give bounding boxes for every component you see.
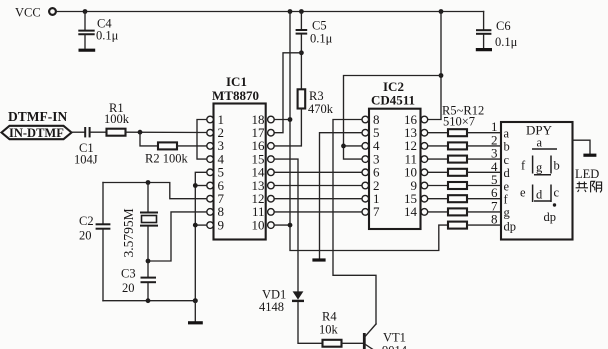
- svg-text:VCC: VCC: [15, 6, 41, 20]
- svg-text:14: 14: [404, 204, 418, 219]
- resistor network R5~R12 510x7 label: [442, 104, 484, 129]
- resistor R4 10k: [319, 310, 342, 347]
- display DPY body: [501, 122, 573, 240]
- wire pin6 stub: [195, 185, 206, 187]
- svg-text:9014: 9014: [382, 344, 408, 349]
- svg-text:dp: dp: [504, 220, 517, 234]
- svg-text:e: e: [520, 186, 526, 200]
- crystal X1 3.5795M: [121, 183, 158, 262]
- node OSC1/crystal-top junction: [146, 180, 151, 185]
- wire VDD to IC2 pins 4,3: [344, 76, 442, 160]
- wire pin4 stub: [344, 145, 362, 147]
- wire Q4 pin14 to IC2 pin6: [275, 171, 362, 173]
- wire VDD rail down to dp resistor: [290, 12, 448, 251]
- resistor R11 (segment g): [428, 208, 501, 215]
- wire VCC top rail: [56, 11, 483, 13]
- IC1 right pin numbers: [252, 112, 266, 233]
- wire Q1 pin11 to IC2 pin7: [275, 211, 362, 213]
- wire R2 to IC1 pin3: [177, 145, 206, 147]
- wire IC1 pin10 stub: [275, 224, 291, 226]
- resistor R12 (segment dp): [448, 222, 501, 229]
- svg-text:C3: C3: [121, 267, 136, 281]
- svg-text:7: 7: [373, 204, 380, 219]
- resistor R6 (segment b): [428, 142, 501, 149]
- node pin6 junction: [193, 183, 198, 188]
- wire IC2 pin8 VSS to VT1 collector: [333, 120, 376, 325]
- IC1 left pin numbers: [218, 112, 225, 233]
- svg-text:104J: 104J: [74, 153, 98, 167]
- resistor R8 (segment d): [428, 169, 501, 176]
- svg-text:0.1μ: 0.1μ: [96, 29, 119, 43]
- svg-text:LED: LED: [575, 167, 599, 181]
- ground bar under C4: [79, 49, 96, 52]
- svg-text:MT8870: MT8870: [212, 88, 259, 103]
- svg-text:R4: R4: [322, 310, 337, 324]
- ground bar under C6: [476, 48, 492, 51]
- wire Q2 pin12 to IC2 pin1: [275, 198, 362, 200]
- svg-text:a: a: [504, 127, 510, 141]
- svg-text:DTMF-IN: DTMF-IN: [8, 109, 67, 124]
- svg-text:4148: 4148: [259, 300, 284, 314]
- wire numbers 1-8 segment labels: [491, 119, 498, 226]
- svg-text:g: g: [536, 161, 543, 175]
- ground bar LE: [312, 258, 325, 261]
- IC1 right pin circles 18-10: [268, 116, 275, 228]
- wire R3 to IC1 pin16: [275, 109, 302, 146]
- svg-text:510×7: 510×7: [443, 115, 475, 129]
- svg-text:9: 9: [218, 217, 225, 232]
- node C3 bottom junction: [146, 298, 151, 303]
- IC2 left pin circles: [362, 116, 369, 215]
- svg-text:R3: R3: [309, 89, 324, 103]
- wire OSC1 node to IC1 pin7: [103, 183, 206, 199]
- label LED common-cathode: [575, 167, 602, 192]
- svg-text:3.5795M: 3.5795M: [121, 208, 136, 257]
- IC2 left pin numbers: [373, 112, 380, 219]
- node pin4 junction: [341, 144, 346, 149]
- wire Q3 pin13 to IC2 pin2: [275, 185, 362, 187]
- wire junction down to R2: [140, 132, 158, 146]
- wire bottom ground rail: [103, 300, 195, 302]
- wire IC1 pin8 to crystal bottom: [148, 212, 206, 261]
- resistor R2 100k: [145, 142, 188, 165]
- svg-text:R2 100k: R2 100k: [145, 152, 188, 166]
- svg-text:IC1: IC1: [226, 74, 247, 89]
- DPY seven-segment glyph: [520, 136, 560, 225]
- svg-text:8: 8: [491, 212, 498, 227]
- node rail junction dots: [83, 9, 444, 14]
- svg-text:dp: dp: [544, 210, 557, 224]
- wire IC1 pins5,6,9 ground bus: [195, 172, 206, 300]
- svg-text:g: g: [504, 206, 511, 220]
- svg-text:470k: 470k: [308, 102, 334, 116]
- wire VDD branch to IC2 pin16: [428, 12, 441, 120]
- svg-text:c: c: [554, 186, 560, 200]
- svg-text:0.1μ: 0.1μ: [310, 32, 333, 46]
- capacitor C6 0.1u: [476, 12, 518, 50]
- wire R1 to IC1 pin2: [126, 131, 207, 133]
- svg-text:20: 20: [79, 229, 92, 243]
- node VDD branch junction: [439, 73, 444, 78]
- node C5/R3/StGT junction: [299, 50, 304, 55]
- resistor R10 (segment f): [428, 195, 501, 202]
- op-amp U/IC1 MT8870 body: [212, 74, 266, 240]
- node DTMF-IN input flag: [2, 109, 72, 140]
- ground symbol bottom-left: [188, 301, 203, 323]
- svg-text:C6: C6: [496, 19, 511, 33]
- DPY pin labels a-g,dp: [504, 127, 517, 234]
- wire DPY common to LED bar: [573, 140, 591, 153]
- wire R4 to VT1 base: [342, 342, 364, 344]
- IC2 right pin numbers: [404, 112, 418, 219]
- svg-text:d: d: [504, 166, 511, 180]
- svg-text:10: 10: [252, 217, 265, 232]
- resistor R1 100k: [104, 101, 130, 136]
- svg-text:10k: 10k: [319, 323, 339, 337]
- svg-text:20: 20: [122, 281, 135, 295]
- capacitor C4 0.1u: [78, 12, 118, 49]
- resistor R7 (segment c): [428, 156, 501, 163]
- svg-text:a: a: [537, 136, 543, 150]
- diode VD1 4148: [259, 288, 304, 315]
- node VCC terminal: [15, 6, 56, 20]
- wire IC2 pin5 LE to ground: [320, 133, 362, 259]
- svg-text:e: e: [504, 179, 510, 193]
- svg-text:b: b: [504, 140, 510, 154]
- capacitor C2 20: [79, 183, 110, 301]
- transistor VT1 9014: [364, 324, 407, 349]
- resistor R5 (segment a): [428, 129, 501, 136]
- IC2 right pin circles: [421, 116, 428, 215]
- svg-text:100k: 100k: [104, 112, 130, 126]
- wire IC1 pin15 StD down: [275, 159, 299, 291]
- capacitor C1 104J: [74, 127, 98, 167]
- svg-text:C5: C5: [312, 19, 327, 33]
- svg-text:c: c: [504, 153, 510, 167]
- wire IC1 pin18 stub: [275, 119, 291, 121]
- resistor R9 (segment e): [428, 182, 501, 189]
- capacitor C3 20: [121, 261, 156, 301]
- op-amp U/IC2 CD4511 body: [369, 79, 421, 229]
- wire pin9 stub: [195, 224, 206, 226]
- ground bar LED common: [583, 154, 596, 157]
- svg-text:C2: C2: [79, 214, 94, 228]
- wire StGT to IC1 pin17: [275, 53, 302, 133]
- svg-text:0.1μ: 0.1μ: [495, 35, 518, 49]
- node pin18 junction: [288, 117, 293, 122]
- wire IC1 pin1 to pin4 tie: [197, 120, 206, 160]
- svg-text:b: b: [554, 159, 560, 173]
- svg-text:IN-DTMF: IN-DTMF: [9, 126, 64, 140]
- capacitor C5 0.1u: [296, 12, 333, 90]
- node crystal-bottom junction: [146, 259, 151, 264]
- node R1/R2 junction: [138, 130, 143, 135]
- svg-text:VT1: VT1: [383, 331, 406, 345]
- wire flag to C1: [72, 131, 85, 133]
- svg-text:d: d: [536, 188, 543, 202]
- node pin9 junction: [193, 223, 198, 228]
- wire VD1 to R4: [298, 302, 323, 343]
- resistor R3 470k: [298, 89, 334, 116]
- node ground rail junction: [193, 298, 198, 303]
- IC1 left pin circles 1-9: [207, 116, 214, 228]
- wire C1 to R1: [90, 131, 107, 133]
- svg-text:CD4511: CD4511: [371, 93, 415, 108]
- node pin10 junction: [288, 223, 293, 228]
